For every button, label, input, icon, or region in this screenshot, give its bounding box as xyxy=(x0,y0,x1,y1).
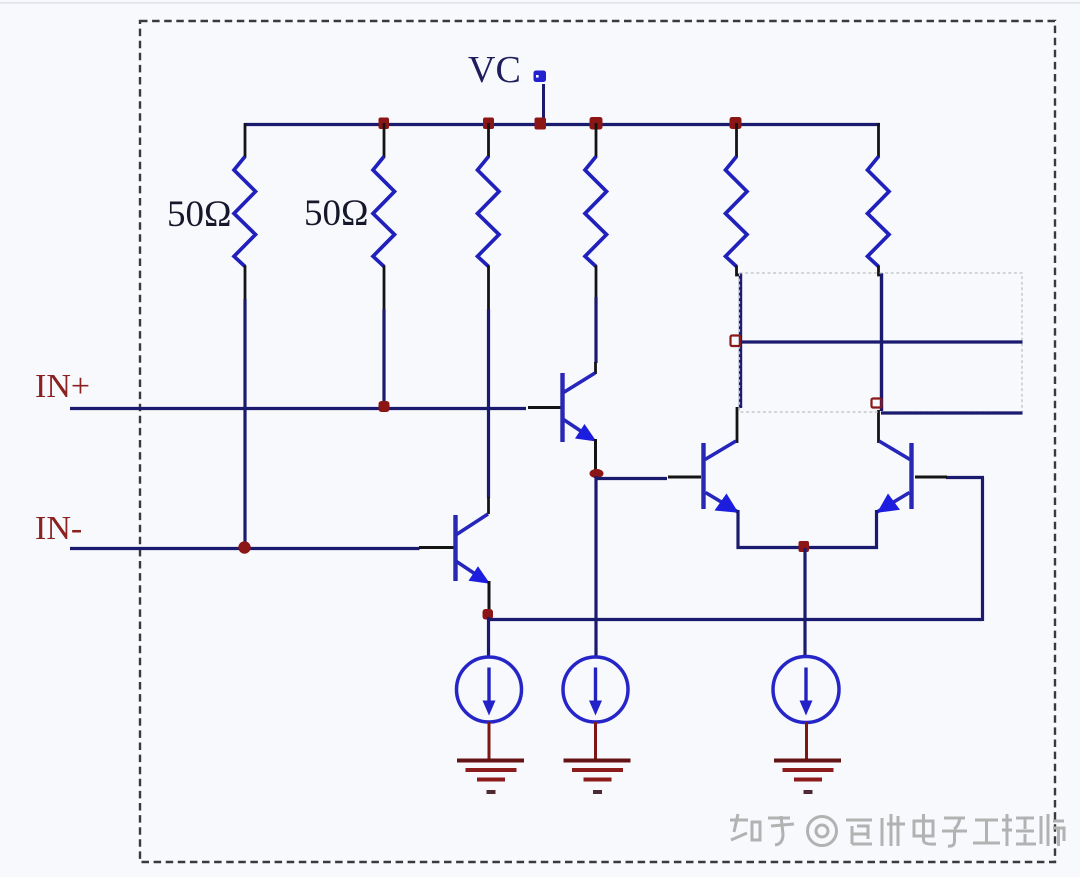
node dot Q1 emitter xyxy=(590,469,604,478)
wire R4 bottom to Q1 collector xyxy=(594,297,598,374)
wire VC stub xyxy=(542,84,545,126)
ground GND3 xyxy=(774,761,841,793)
node dot on rail at R5 xyxy=(730,117,742,129)
wire R5 bottom to Q3 collector xyxy=(737,273,741,443)
wire tail to current source I3 xyxy=(803,548,806,656)
node dot IN+ / R2 xyxy=(379,401,390,412)
node dot Q2 emitter xyxy=(483,609,494,620)
wire I1 to ground xyxy=(488,722,491,759)
wire Q4 base link xyxy=(946,476,984,479)
svg-text:50Ω: 50Ω xyxy=(167,194,232,235)
transistor Q4 xyxy=(877,441,947,513)
wire right riser to Q4 base xyxy=(981,478,984,622)
watermark zhihu xyxy=(730,814,1064,846)
wire I2 to ground xyxy=(594,722,597,759)
resistor R5 xyxy=(726,123,748,275)
VC pin xyxy=(534,71,547,83)
svg-text:50Ω: 50Ω xyxy=(304,193,369,234)
char cheng xyxy=(1002,814,1036,846)
resistor R2 (50 ohm) xyxy=(373,123,395,311)
wire R6 bottom to Q4 collector xyxy=(879,273,882,443)
wire tail joining Q3 Q4 emitters xyxy=(737,546,879,549)
wire R3 bottom to Q2 collector xyxy=(487,309,490,514)
char dian xyxy=(914,814,936,844)
char zhi xyxy=(730,814,760,840)
node dot tail xyxy=(799,541,810,552)
char hu xyxy=(768,816,794,845)
ground GND1 xyxy=(457,761,524,793)
char gong xyxy=(973,820,1000,843)
wire Q2 emitter node to current source I1 xyxy=(487,617,490,656)
wire R1 bottom to IN- xyxy=(243,299,246,549)
wire IN- xyxy=(70,547,420,550)
wire IN+ xyxy=(70,407,526,410)
char zi xyxy=(942,818,967,846)
wire node to Q3 base xyxy=(597,477,667,480)
svg-text:IN+: IN+ xyxy=(35,368,90,405)
wire R2 bottom to IN+ xyxy=(382,309,385,409)
wire Q3 emitter down xyxy=(736,510,739,549)
transistor Q3 xyxy=(668,441,739,513)
resistor R6 xyxy=(868,123,890,275)
resistor R4 xyxy=(585,123,607,299)
wire output 1 xyxy=(739,340,1023,343)
resistor R3 xyxy=(478,123,500,311)
current source I2 xyxy=(563,657,628,722)
node dot on rail at R4 xyxy=(590,117,603,130)
current source I1 xyxy=(457,657,522,722)
wire feedback bottom rail xyxy=(489,618,983,621)
svg-text:IN-: IN- xyxy=(35,510,82,547)
transistor Q2 xyxy=(419,514,490,611)
resistor R1 (50 ohm) xyxy=(234,123,256,301)
char shi xyxy=(1041,814,1064,846)
node dot IN- / R1 xyxy=(238,541,250,553)
char at xyxy=(808,817,837,846)
wire I3 to ground xyxy=(805,722,808,759)
wire Q4 emitter down xyxy=(875,510,878,549)
node dot on rail at R3 xyxy=(483,118,494,130)
char ying xyxy=(846,820,872,844)
node dot on rail at VC xyxy=(535,118,547,130)
char jian xyxy=(882,814,905,846)
transistor Q1 xyxy=(528,373,597,471)
wire Q1 emitter to current source I2 xyxy=(594,476,597,656)
wire top power rail xyxy=(245,123,881,126)
pin marker on output 2 xyxy=(872,399,882,408)
faint top edge line xyxy=(0,2,1080,4)
svg-text:VC: VC xyxy=(468,49,521,91)
wire output 2 xyxy=(881,411,1023,414)
ground GND2 xyxy=(564,761,631,793)
node dot on rail at R2 xyxy=(379,118,390,130)
pin marker on output 1 xyxy=(731,336,741,347)
dashed selection box top right xyxy=(740,273,1023,412)
current source I3 xyxy=(773,657,839,723)
